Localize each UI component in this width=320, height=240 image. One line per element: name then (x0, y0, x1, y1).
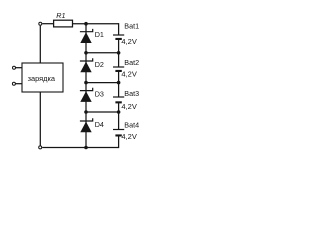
wire: R1 right lead to battery stack top corner (73, 23, 119, 25)
svg-text:Bat4: Bat4 (124, 120, 139, 129)
svg-text:Bat1: Bat1 (124, 21, 139, 30)
wire: charger box top to positive terminal (39, 26, 41, 63)
terminal: charger input upper (open circle) (13, 66, 16, 69)
svg-text:Bat3: Bat3 (124, 89, 139, 98)
battery Bat4 plates (113, 129, 124, 137)
wire: Bat4 minus plate down to bottom rail (118, 136, 120, 148)
wire: stage 1/2 tie (node between D1 and D2) (86, 52, 119, 54)
terminal: charger negative output (open circle) (39, 146, 42, 149)
wire: vertical drop from top rail to Bat1 plus plate (118, 23, 120, 35)
svg-text:4,2V: 4,2V (121, 37, 136, 46)
wire: bottom rail from negative terminal to battery stack bottom (42, 147, 118, 149)
diode D3 (zener, cathode up) (80, 88, 93, 102)
junction: stage2/3 node at battery column (117, 81, 121, 85)
wire: stage 3/4 tie (node between D3 and D4) (86, 111, 119, 113)
svg-text:4,2V: 4,2V (121, 102, 136, 111)
battery Bat2 plates (113, 66, 124, 72)
wire: stage 2/3 tie (node between D2 and D3) (86, 82, 119, 84)
junction: stage1/2 node at diode column (84, 51, 88, 55)
svg-text:4,2V: 4,2V (121, 132, 136, 141)
junction: top rail / diode column (84, 22, 88, 26)
battery Bat1 plates (113, 34, 124, 40)
resistor R1 (54, 20, 73, 27)
svg-text:4,2V: 4,2V (121, 69, 136, 78)
svg-text:D2: D2 (95, 60, 104, 69)
wire: Bat3 minus to stage3/4 node, Bat4 plus drop (118, 103, 120, 129)
charger box "зарядка" (22, 63, 63, 92)
svg-text:D3: D3 (95, 90, 104, 99)
junction: bottom rail / diode column (84, 146, 88, 150)
terminal: charger input lower (open circle) (12, 82, 15, 85)
svg-text:зарядка: зарядка (28, 74, 56, 83)
terminal: charger positive output (open circle) (39, 22, 42, 25)
battery Bat3 plates (113, 96, 124, 103)
junction: stage3/4 node at battery column (117, 110, 121, 114)
wire: upper input stub (16, 67, 23, 69)
junction: stage2/3 node at diode column (84, 81, 88, 85)
svg-text:R1: R1 (56, 11, 65, 20)
wire: Bat2 minus to stage2/3 node, Bat3 plus drop (118, 72, 120, 97)
diode D2 (zener, cathode up) (80, 58, 93, 72)
wire: lower input stub (15, 83, 22, 85)
wire: Bat1 minus to stage1/2 node, Bat2 plus drop (118, 40, 120, 67)
junction: stage1/2 node at battery column (117, 51, 121, 55)
wire: top rail from charger terminal to R1 left lead (42, 23, 53, 25)
diode D1 (zener, cathode up) (80, 29, 93, 43)
wire: charger box bottom to negative terminal (39, 92, 41, 146)
diode D4 (zener, cathode up) (80, 118, 93, 132)
svg-text:D4: D4 (95, 120, 104, 129)
svg-text:D1: D1 (95, 30, 104, 39)
svg-text:Bat2: Bat2 (124, 58, 139, 67)
junction: stage3/4 node at diode column (84, 110, 88, 114)
wire: diode chain vertical column (85, 24, 87, 148)
